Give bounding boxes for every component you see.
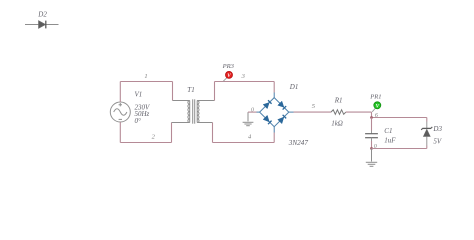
svg-text:V: V <box>376 104 380 110</box>
svg-text:V1: V1 <box>135 91 143 99</box>
capacitor C1 top pin <box>371 131 373 134</box>
wire top rail secondary <box>215 81 275 83</box>
wire junction jog <box>371 112 373 117</box>
svg-text:3: 3 <box>241 73 246 80</box>
wire bridge bottom riser <box>273 133 275 143</box>
wire junction down to C1 <box>371 118 373 131</box>
ground left node 0 <box>243 112 254 126</box>
svg-text:0°: 0° <box>135 117 142 125</box>
wire primary bottom riser <box>171 123 173 143</box>
svg-text:T1: T1 <box>187 86 194 94</box>
wire bottom rail secondary <box>213 142 275 144</box>
svg-text:1kΩ: 1kΩ <box>331 120 343 128</box>
wire C1 to bottom junction <box>371 141 373 149</box>
wire top rail primary <box>120 81 172 83</box>
bridge diode top-left <box>263 100 271 108</box>
wire ground to bridge left <box>248 111 257 113</box>
wire junction to D3 <box>372 117 427 119</box>
capacitor C1 bottom pin <box>371 138 373 141</box>
bridge diode bottom-right <box>278 115 286 124</box>
bottom junction dot node 0 <box>370 147 373 150</box>
capacitor C1 <box>365 134 378 138</box>
wire primary top drop <box>172 82 174 101</box>
ground right <box>366 149 377 167</box>
wire R1 to junction <box>346 111 372 113</box>
svg-text:D3: D3 <box>432 125 442 133</box>
svg-text:C1: C1 <box>384 127 392 135</box>
wire bridge to R1 <box>294 111 332 113</box>
wire bridge top drop <box>273 82 275 93</box>
wire V1 bottom <box>119 122 121 143</box>
wire secondary top riser <box>214 82 216 101</box>
svg-text:PR3: PR3 <box>222 63 235 70</box>
wire secondary bottom riser <box>212 123 214 143</box>
probe PR1 <box>372 102 381 112</box>
svg-text:V: V <box>227 73 231 79</box>
svg-text:0: 0 <box>251 108 254 114</box>
wire bottom rail primary <box>120 142 171 144</box>
wire V1 top <box>119 82 121 103</box>
svg-text:R1: R1 <box>334 96 343 104</box>
junction node 6 dot <box>370 116 373 119</box>
svg-text:D2: D2 <box>37 11 47 19</box>
probe PR3 <box>223 71 232 81</box>
svg-text:6: 6 <box>375 113 378 119</box>
svg-text:5V: 5V <box>433 138 442 146</box>
wire bottom rail output <box>372 148 427 150</box>
svg-text:1: 1 <box>144 73 147 80</box>
svg-text:1uF: 1uF <box>384 137 396 145</box>
bridge diode top-right <box>278 101 286 109</box>
resistor R1 <box>331 110 346 115</box>
diode D2 <box>25 21 59 29</box>
transformer T1 <box>172 99 215 123</box>
svg-text:3N247: 3N247 <box>288 139 309 147</box>
svg-text:D1: D1 <box>289 83 299 91</box>
bridge rectifier D1 <box>257 93 294 133</box>
bridge diode bottom-left <box>263 115 271 124</box>
svg-text:PR1: PR1 <box>369 94 381 101</box>
zener diode D3 <box>421 118 432 149</box>
AC source V1 <box>110 102 130 122</box>
